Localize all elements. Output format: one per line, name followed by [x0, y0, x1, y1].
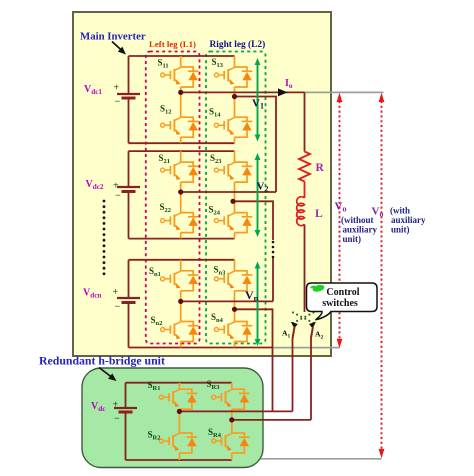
svg-text:(without: (without: [341, 215, 374, 225]
svg-text:+: +: [113, 287, 119, 298]
svg-text:auxiliary: auxiliary: [391, 215, 426, 225]
svg-text:−: −: [115, 191, 121, 202]
svg-text:Redundant h-bridge unit: Redundant h-bridge unit: [39, 354, 165, 368]
svg-text:Right leg (L2): Right leg (L2): [210, 39, 266, 50]
svg-text:−: −: [114, 414, 120, 425]
svg-text:R: R: [316, 162, 325, 174]
svg-text:unit): unit): [391, 225, 410, 235]
svg-text:(with: (with: [390, 206, 410, 216]
svg-text:Main Inverter: Main Inverter: [80, 31, 146, 43]
svg-text:L: L: [315, 208, 323, 220]
svg-text:unit): unit): [343, 234, 362, 244]
svg-text:+: +: [114, 83, 120, 94]
svg-text:Control: Control: [326, 287, 359, 298]
svg-text:+: +: [113, 400, 119, 411]
svg-text:Vo: Vo: [335, 201, 347, 214]
svg-text:auxiliary: auxiliary: [343, 225, 378, 235]
svg-text:−: −: [115, 97, 121, 108]
svg-text:Left leg (L1): Left leg (L1): [149, 39, 196, 49]
svg-text:−: −: [115, 302, 121, 313]
svg-text:switches: switches: [322, 298, 358, 309]
